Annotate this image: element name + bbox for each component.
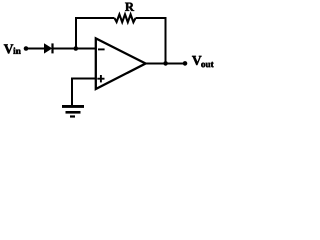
node Vout terminal dot [183,61,188,66]
op-amp minus sign [98,48,105,50]
ground symbol bar 3 [70,115,75,117]
resistor R zigzag [115,14,136,22]
wire diode to input node [53,48,76,50]
wire top left to resistor [75,17,115,19]
wire corner down to ground [71,78,73,106]
wire Vin to diode [26,48,45,50]
op-amp triangle [96,38,146,89]
label Vin [4,44,21,53]
wire op-amp output to Vout [145,62,186,64]
node output junction dot [163,61,168,66]
resistor label R [125,3,134,11]
wire op-amp non-inverting input to corner [71,78,96,80]
wire feedback tap up [75,17,77,50]
label Vout [192,56,214,67]
op-amp plus sign (vertical) [100,75,102,82]
ground symbol bar 2 [66,111,81,114]
op-amp plus sign (horizontal) [97,78,104,80]
wire resistor to top right corner [136,17,167,19]
diode (anode triangle) [44,43,52,53]
node input junction dot [74,46,79,51]
node Vin terminal dot [24,46,29,51]
ground symbol bar 1 [62,105,84,108]
wire input node to op-amp inverting input [76,48,96,50]
wire feedback down to output node [165,17,167,63]
diode cathode bar [51,43,53,53]
